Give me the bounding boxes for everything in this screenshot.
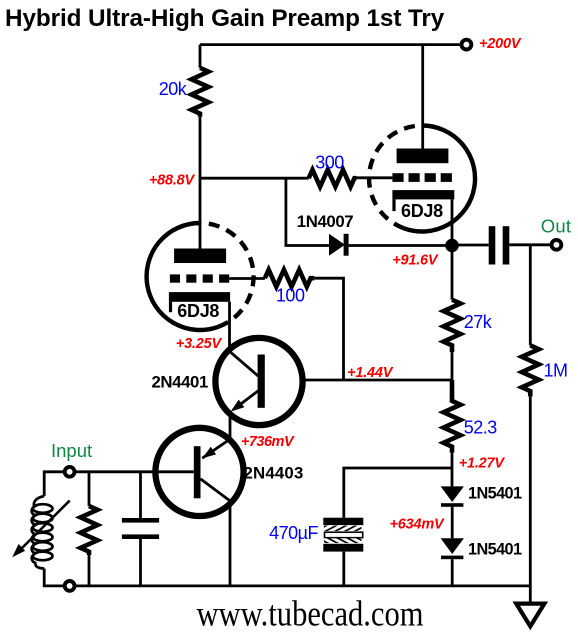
resistor 300 bbox=[309, 170, 357, 187]
svg-text:www.tubecad.com: www.tubecad.com bbox=[197, 594, 424, 634]
base bar bbox=[258, 355, 265, 408]
cathode left notch bbox=[392, 199, 395, 211]
svg-text:20k: 20k bbox=[159, 79, 188, 99]
label box bbox=[174, 302, 228, 318]
wire input cap top bbox=[139, 472, 142, 518]
wire D1 to D2 bbox=[451, 507, 454, 539]
wire 1N4007 to output node bbox=[349, 244, 452, 247]
svg-text:52.3: 52.3 bbox=[464, 418, 498, 438]
envelope solid arc bbox=[147, 223, 219, 330]
svg-text:27k: 27k bbox=[464, 312, 493, 332]
wire grid V1a to 100 bbox=[229, 277, 265, 280]
svg-text:Input: Input bbox=[51, 440, 92, 461]
diode 1N4007 bbox=[329, 234, 349, 256]
inductor variable arrow bbox=[12, 501, 69, 558]
transistor Q2 2N4403 bbox=[155, 428, 243, 516]
wire input resistor bottom bbox=[88, 555, 91, 586]
wire 27k to +1.44V node bbox=[451, 352, 454, 380]
resistor 27k bbox=[444, 300, 461, 352]
terminal Out bbox=[552, 240, 562, 250]
wire D2 to ground rail bbox=[451, 559, 454, 586]
wire +1.44V from transistor base to divider bbox=[265, 379, 452, 382]
svg-text:+91.6V: +91.6V bbox=[392, 252, 439, 268]
svg-text:6DJ8: 6DJ8 bbox=[177, 301, 219, 321]
svg-text:1N4007: 1N4007 bbox=[297, 212, 353, 231]
wire branch down to 1N4007 bbox=[286, 178, 329, 245]
emitter line bbox=[202, 440, 229, 459]
terminal input top bbox=[65, 467, 75, 477]
grid dashes bbox=[392, 173, 403, 182]
plate lead bbox=[421, 45, 424, 149]
svg-text:+634mV: +634mV bbox=[389, 516, 445, 532]
capacitor output coupling bbox=[489, 226, 510, 264]
plate bar bbox=[397, 149, 449, 164]
terminal +200V bbox=[462, 40, 472, 50]
transistor Q1 2N4401 bbox=[215, 338, 302, 425]
svg-text:+200V: +200V bbox=[479, 36, 522, 52]
svg-text:470µF: 470µF bbox=[269, 523, 318, 543]
svg-text:+1.27V: +1.27V bbox=[459, 455, 506, 471]
base bar bbox=[194, 446, 201, 498]
resistor 100 bbox=[265, 270, 314, 287]
svg-text:+1.44V: +1.44V bbox=[347, 365, 394, 381]
cathode lead down bbox=[228, 302, 231, 351]
envelope solid arc bbox=[404, 125, 475, 231]
wire Q1 emitter to Q2 emitter bbox=[229, 411, 232, 440]
wire out to 1M bbox=[529, 245, 532, 346]
wire node to 27k bbox=[451, 246, 454, 300]
wire input cap bottom bbox=[139, 539, 142, 586]
inductor input coil bbox=[32, 496, 53, 569]
capacitor input shunt bbox=[122, 518, 159, 539]
cathode left notch bbox=[169, 302, 172, 312]
capacitor 470uF electrolytic bbox=[323, 518, 363, 552]
op-amp: triode V1a 6DJ8 (lower tube) bbox=[147, 223, 254, 351]
wire input left branch top bbox=[44, 472, 64, 496]
svg-text:+3.25V: +3.25V bbox=[176, 336, 223, 352]
diode D1 1N5401 bbox=[441, 486, 464, 506]
svg-text:1N5401: 1N5401 bbox=[468, 485, 522, 503]
cathode bar bbox=[169, 292, 230, 302]
svg-text:100: 100 bbox=[276, 286, 305, 306]
wire from top rail down to 20k bbox=[199, 45, 202, 68]
resistor 1M bbox=[522, 345, 539, 396]
envelope dashed arc bbox=[200, 223, 254, 327]
wire ground rail bbox=[75, 585, 531, 588]
node output junction dot bbox=[445, 239, 459, 253]
svg-text:+736mV: +736mV bbox=[241, 434, 295, 450]
plate bar bbox=[174, 249, 226, 264]
svg-text:Out: Out bbox=[541, 216, 571, 237]
op-amp: triode V1b 6DJ8 (upper tube) bbox=[369, 45, 475, 246]
wire top rail bbox=[200, 43, 460, 46]
wire 52.3 to +1.27V node bbox=[451, 453, 454, 487]
cathode bar bbox=[392, 190, 454, 199]
svg-text:6DJ8: 6DJ8 bbox=[401, 201, 443, 221]
envelope dashed arc bbox=[369, 126, 422, 229]
wire Q2 collector to ground rail bbox=[229, 501, 232, 586]
label box bbox=[396, 200, 450, 218]
resistor 52.3 bbox=[444, 380, 461, 453]
wire input resistor top bbox=[88, 472, 91, 506]
collector line bbox=[229, 351, 259, 377]
grid dashes bbox=[170, 274, 180, 282]
wire cap to Out terminal bbox=[509, 243, 551, 246]
wire coil to bottom bbox=[44, 569, 64, 586]
wire +88.8V node to plate of 6DJ8 V1a bbox=[199, 178, 202, 249]
svg-text:300: 300 bbox=[315, 153, 344, 173]
resistor input shunt bbox=[81, 506, 98, 555]
wire 20k to +88.8V node bbox=[199, 117, 202, 179]
svg-text:1M: 1M bbox=[544, 361, 568, 381]
emitter arrow bbox=[202, 447, 216, 459]
ground bbox=[516, 604, 544, 627]
emitter arrow bbox=[231, 400, 245, 412]
terminal input bottom bbox=[65, 581, 75, 591]
collector line bbox=[201, 479, 231, 501]
wire 300 to grid of V1b bbox=[357, 176, 393, 179]
svg-text:Hybrid Ultra-High Gain Preamp: Hybrid Ultra-High Gain Preamp 1st Try bbox=[5, 5, 445, 32]
wire 1M to ground bbox=[529, 396, 532, 602]
wire node to output cap bbox=[452, 244, 489, 247]
wire +1.27V node to 470uF bbox=[344, 468, 452, 518]
svg-text:2N4403: 2N4403 bbox=[244, 464, 304, 483]
wire 470uF to ground rail bbox=[342, 552, 345, 586]
svg-text:+88.8V: +88.8V bbox=[149, 173, 196, 189]
wire +88.8V node right to 300/diode branch bbox=[200, 177, 309, 180]
resistor 20k bbox=[192, 68, 209, 117]
diode D2 1N5401 bbox=[441, 538, 464, 559]
wire 100 to base column bbox=[314, 278, 343, 380]
svg-text:2N4401: 2N4401 bbox=[152, 373, 208, 392]
wire input terminal to Q2 base bbox=[75, 470, 194, 473]
svg-text:1N5401: 1N5401 bbox=[468, 541, 522, 559]
cathode lead to node bbox=[451, 199, 454, 245]
emitter line bbox=[233, 390, 259, 409]
